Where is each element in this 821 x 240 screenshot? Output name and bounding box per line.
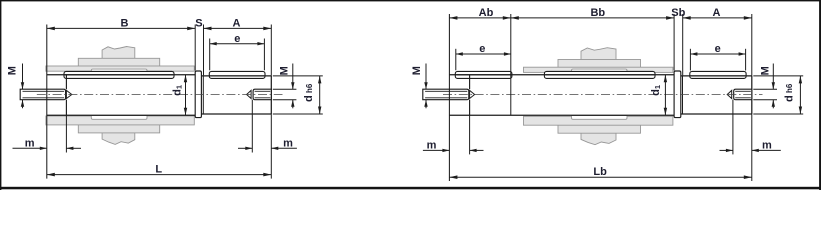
key on middle section (64, 71, 174, 78)
hub keyway slot (white) below shaft (91, 116, 147, 120)
dimension e (left key) (455, 49, 457, 71)
dimension Bb (511, 17, 674, 19)
dimension M (right stub thread) (273, 88, 297, 90)
dimension m (left) (469, 115, 471, 154)
housing silhouette upper step 3 (wavy break edge) (581, 48, 616, 61)
shaft left face line (65, 75, 67, 89)
svg-text:M: M (7, 66, 19, 75)
extension line: S right / A left (203, 25, 205, 76)
svg-text:S: S (195, 18, 202, 30)
housing silhouette upper step 2 (78, 58, 159, 67)
housing silhouette upper step 3 (wavy break edge) (102, 47, 135, 60)
shaft end section outline (201, 75, 271, 77)
shaft end section (white fill) (681, 76, 752, 114)
thread minor diameter lines (23, 90, 65, 92)
svg-text:d h6: d h6 (303, 83, 315, 102)
extension line: reference plane left (448, 14, 450, 181)
threaded stub body (423, 89, 469, 100)
shaft left face line (469, 75, 471, 89)
shaft end section outline (681, 75, 752, 77)
dimension m (left) (65, 115, 67, 152)
extension line: hub face Ab/Bb (510, 14, 512, 115)
stub tip cone / centre point (470, 90, 475, 98)
hub keyway slot (white) below shaft (572, 116, 628, 120)
svg-text:Ab: Ab (479, 7, 494, 19)
svg-text:d h6: d h6 (783, 83, 795, 102)
dimension Lb (total length) (449, 176, 751, 178)
dimension d1 (middle diameter) (664, 75, 666, 115)
svg-text:A: A (713, 7, 721, 19)
thread minor diameter lines (255, 90, 271, 92)
housing silhouette lower step 2 (558, 124, 641, 133)
undercut groove line (682, 76, 684, 114)
dimension d h6 (shaft end diameter) (753, 75, 803, 77)
svg-text:e: e (715, 43, 721, 55)
key on right shaft end (690, 71, 746, 78)
dimension e (key length) (209, 39, 211, 71)
stub tip cone / centre point (727, 90, 732, 98)
extension line: shaft end face to dims (751, 14, 753, 76)
housing silhouette lower step 3 (wavy break edge) (581, 132, 616, 145)
svg-text:m: m (25, 137, 35, 149)
collar / shoulder ring Sb (674, 71, 681, 118)
undercut groove line (202, 76, 204, 114)
shaft end face line (270, 76, 272, 114)
key on middle section (544, 71, 655, 78)
stub tip cone / centre point (66, 90, 71, 98)
dimension Ab (449, 17, 510, 19)
dimension m (right) (251, 100, 253, 153)
key on shaft end section (209, 71, 265, 78)
extension line: Sb right / A left (682, 14, 684, 75)
threaded stub body (734, 89, 752, 100)
page background (0, 0, 821, 190)
svg-text:e: e (234, 33, 240, 45)
stub tip cone / centre point (247, 90, 252, 98)
svg-text:Bb: Bb (590, 7, 605, 19)
centre line (443, 94, 763, 96)
svg-text:M: M (760, 66, 772, 75)
dimension d h6 (shaft end diameter) (273, 75, 323, 77)
svg-text:M: M (279, 66, 291, 75)
shaft end face line (751, 76, 753, 114)
svg-text:L: L (155, 164, 162, 176)
dimension B (47, 27, 195, 29)
hub keyway slot (white) above key (572, 69, 628, 72)
svg-text:Lb: Lb (593, 166, 607, 178)
extension line: housing reference face (46, 25, 48, 179)
collar / shoulder ring S (195, 71, 201, 118)
dimension d1 (middle diameter) (185, 75, 187, 115)
housing silhouette lower step 3 (wavy break edge) (102, 132, 135, 145)
svg-text:m: m (283, 137, 293, 149)
key on left shaft end (455, 71, 512, 78)
dimension A (683, 17, 752, 19)
svg-text:B: B (121, 18, 129, 30)
dimension m (right) (732, 100, 734, 155)
page border frame (0, 0, 821, 1)
svg-text:e: e (479, 43, 485, 55)
shaft middle section d1 (white fill) (47, 75, 195, 115)
housing silhouette upper step 2 (558, 60, 641, 69)
threaded stub body (253, 89, 271, 100)
dimension A (204, 27, 272, 29)
dimension M (right stub thread) (753, 88, 777, 90)
housing silhouette lower step 2 (78, 124, 159, 133)
shaft middle section outline (47, 74, 195, 76)
housing silhouette lower band (46, 116, 194, 125)
svg-text:M: M (411, 66, 423, 75)
svg-text:m: m (427, 140, 437, 152)
shaft end section (white fill) (201, 76, 271, 114)
extension line: collar left / Bb right (673, 14, 675, 71)
thread minor diameter lines (425, 90, 467, 92)
extension line: shaft end face to dims (270, 25, 272, 76)
housing silhouette lower band (524, 116, 673, 125)
svg-text:A: A (233, 18, 241, 30)
shaft middle section d1 (white fill) (449, 75, 674, 115)
svg-text:m: m (762, 140, 772, 152)
dimension L (total length) (47, 174, 271, 176)
threaded stub body (20, 89, 65, 100)
dimension e (right key) (689, 49, 691, 71)
extension line: collar left / B right (194, 25, 196, 71)
hub keyway slot (white) above key (91, 69, 147, 72)
housing silhouette upper band (524, 67, 673, 72)
thread minor diameter lines (735, 90, 751, 92)
shaft middle section outline (449, 74, 674, 76)
centre line (37, 94, 283, 96)
housing silhouette upper band (46, 66, 194, 71)
